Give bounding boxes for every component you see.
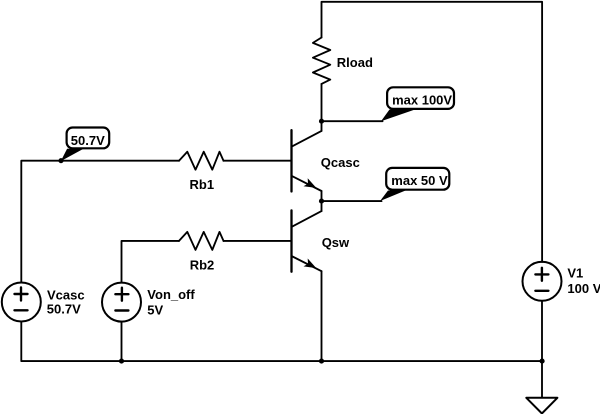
ground <box>526 398 557 414</box>
wire probe max100V <box>322 120 383 122</box>
resistor Rb1 <box>179 152 224 170</box>
wire Von_off to Rb2 <box>122 241 180 283</box>
wire Rb1 to Qcasc base <box>224 160 292 162</box>
svg-text:Qcasc: Qcasc <box>321 155 360 170</box>
node dot Qcasc collector <box>319 119 324 124</box>
svg-text:Von_off: Von_off <box>147 287 195 302</box>
svg-text:5V: 5V <box>147 303 163 318</box>
svg-text:100 V: 100 V <box>567 281 600 296</box>
probe flag max 100V <box>381 87 454 121</box>
probe flag 50.7V <box>61 128 109 162</box>
svg-text:Rload: Rload <box>337 55 373 70</box>
node dot ground junction <box>540 359 545 364</box>
node dot Qcasc emitter / Qsw collector <box>319 199 324 204</box>
source Vcasc <box>2 283 41 322</box>
wire V1 bottom to ground <box>541 301 543 398</box>
transistor Q1 Qcasc <box>292 121 322 201</box>
svg-text:max 100V: max 100V <box>392 92 452 107</box>
svg-text:Rb1: Rb1 <box>190 177 215 192</box>
resistor Rload <box>313 38 330 84</box>
wire left rail top <box>21 161 179 283</box>
source V1 <box>523 262 562 301</box>
source Von_off <box>102 283 141 322</box>
node dot Qsw emitter bottom <box>319 359 324 364</box>
transistor Q2 Qsw <box>292 201 322 361</box>
node dot probe 50.7V <box>58 158 63 163</box>
svg-text:Vcasc: Vcasc <box>47 287 85 302</box>
wire bottom rail <box>21 322 542 362</box>
wire Rb2 to Qsw base <box>224 240 292 242</box>
resistor Rb2 <box>179 232 224 250</box>
wire top rail <box>322 2 543 262</box>
svg-text:Rb2: Rb2 <box>190 257 215 272</box>
wire Rload bottom to collector node <box>321 84 323 121</box>
svg-text:max 50 V: max 50 V <box>391 173 448 188</box>
svg-text:50.7V: 50.7V <box>71 133 105 148</box>
wire Von_off bottom <box>121 322 123 362</box>
svg-text:50.7V: 50.7V <box>47 302 81 317</box>
svg-text:V1: V1 <box>567 266 583 281</box>
wire probe max50V <box>322 200 382 202</box>
svg-text:Qsw: Qsw <box>322 235 350 250</box>
node dot Von_off bottom <box>119 359 124 364</box>
probe flag max 50 V <box>380 168 449 201</box>
